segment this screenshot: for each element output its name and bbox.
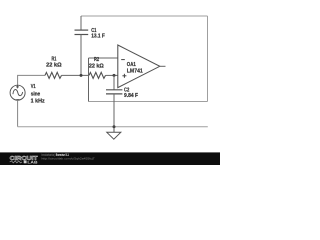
svg-text:V1: V1 bbox=[31, 84, 36, 90]
wire right rail bbox=[207, 16, 209, 102]
svg-text:sine: sine bbox=[31, 92, 41, 98]
capacitor C2 bbox=[106, 90, 122, 94]
wire V1 top to row bbox=[18, 75, 45, 85]
svg-text:OA1: OA1 bbox=[127, 62, 136, 68]
wire C2 upper vertical bbox=[113, 75, 115, 89]
ground junction dot bbox=[113, 125, 116, 128]
wire left loop vertical bbox=[88, 58, 90, 102]
V1 plus sign bbox=[16, 85, 19, 88]
svg-text:1 kHz: 1 kHz bbox=[31, 98, 45, 104]
footer bar bbox=[0, 152, 220, 165]
svg-text:http://circuitlab.com/c/5qh2a4: http://circuitlab.com/c/5qh2a455fcj7 bbox=[42, 156, 95, 160]
wire C1 upper vertical bbox=[80, 16, 82, 30]
op-amp minus sign bbox=[121, 59, 125, 61]
svg-text:22 kΩ: 22 kΩ bbox=[89, 64, 104, 70]
wire C2 lower vertical bbox=[113, 94, 115, 127]
logo LAB bbox=[24, 160, 27, 163]
wire bottom ground rail bbox=[18, 126, 208, 128]
svg-text:R2: R2 bbox=[94, 57, 99, 63]
svg-text:LAB: LAB bbox=[27, 160, 38, 164]
resistor R1 bbox=[45, 72, 62, 78]
resistor R2 bbox=[89, 72, 106, 78]
svg-text:13.1 F: 13.1 F bbox=[91, 33, 105, 39]
wire top feedback rail bbox=[81, 15, 208, 17]
wire V1 bottom vertical bbox=[17, 100, 19, 127]
op-amp plus sign bbox=[122, 74, 126, 78]
svg-text:LM741: LM741 bbox=[127, 69, 143, 75]
svg-text:9.84 F: 9.84 F bbox=[124, 93, 138, 99]
ground bbox=[107, 127, 121, 140]
wire mid horizontal rail bbox=[89, 101, 208, 103]
V1 minus sign bbox=[16, 99, 19, 101]
wire output stub bbox=[160, 65, 166, 67]
op-amp OA1 bbox=[118, 45, 160, 88]
node B junction dot bbox=[113, 74, 116, 77]
wire to inverting input bbox=[89, 57, 118, 59]
capacitor C1 bbox=[75, 30, 89, 34]
wire R2 to plus input bbox=[106, 74, 118, 76]
logo zigzag bbox=[10, 161, 22, 163]
node A junction dot bbox=[80, 74, 83, 77]
wire C1 lower vertical bbox=[80, 35, 82, 76]
voltage source V1 bbox=[10, 85, 25, 100]
svg-text:22 kΩ: 22 kΩ bbox=[46, 62, 61, 68]
wire R1 to node A bbox=[62, 74, 90, 76]
